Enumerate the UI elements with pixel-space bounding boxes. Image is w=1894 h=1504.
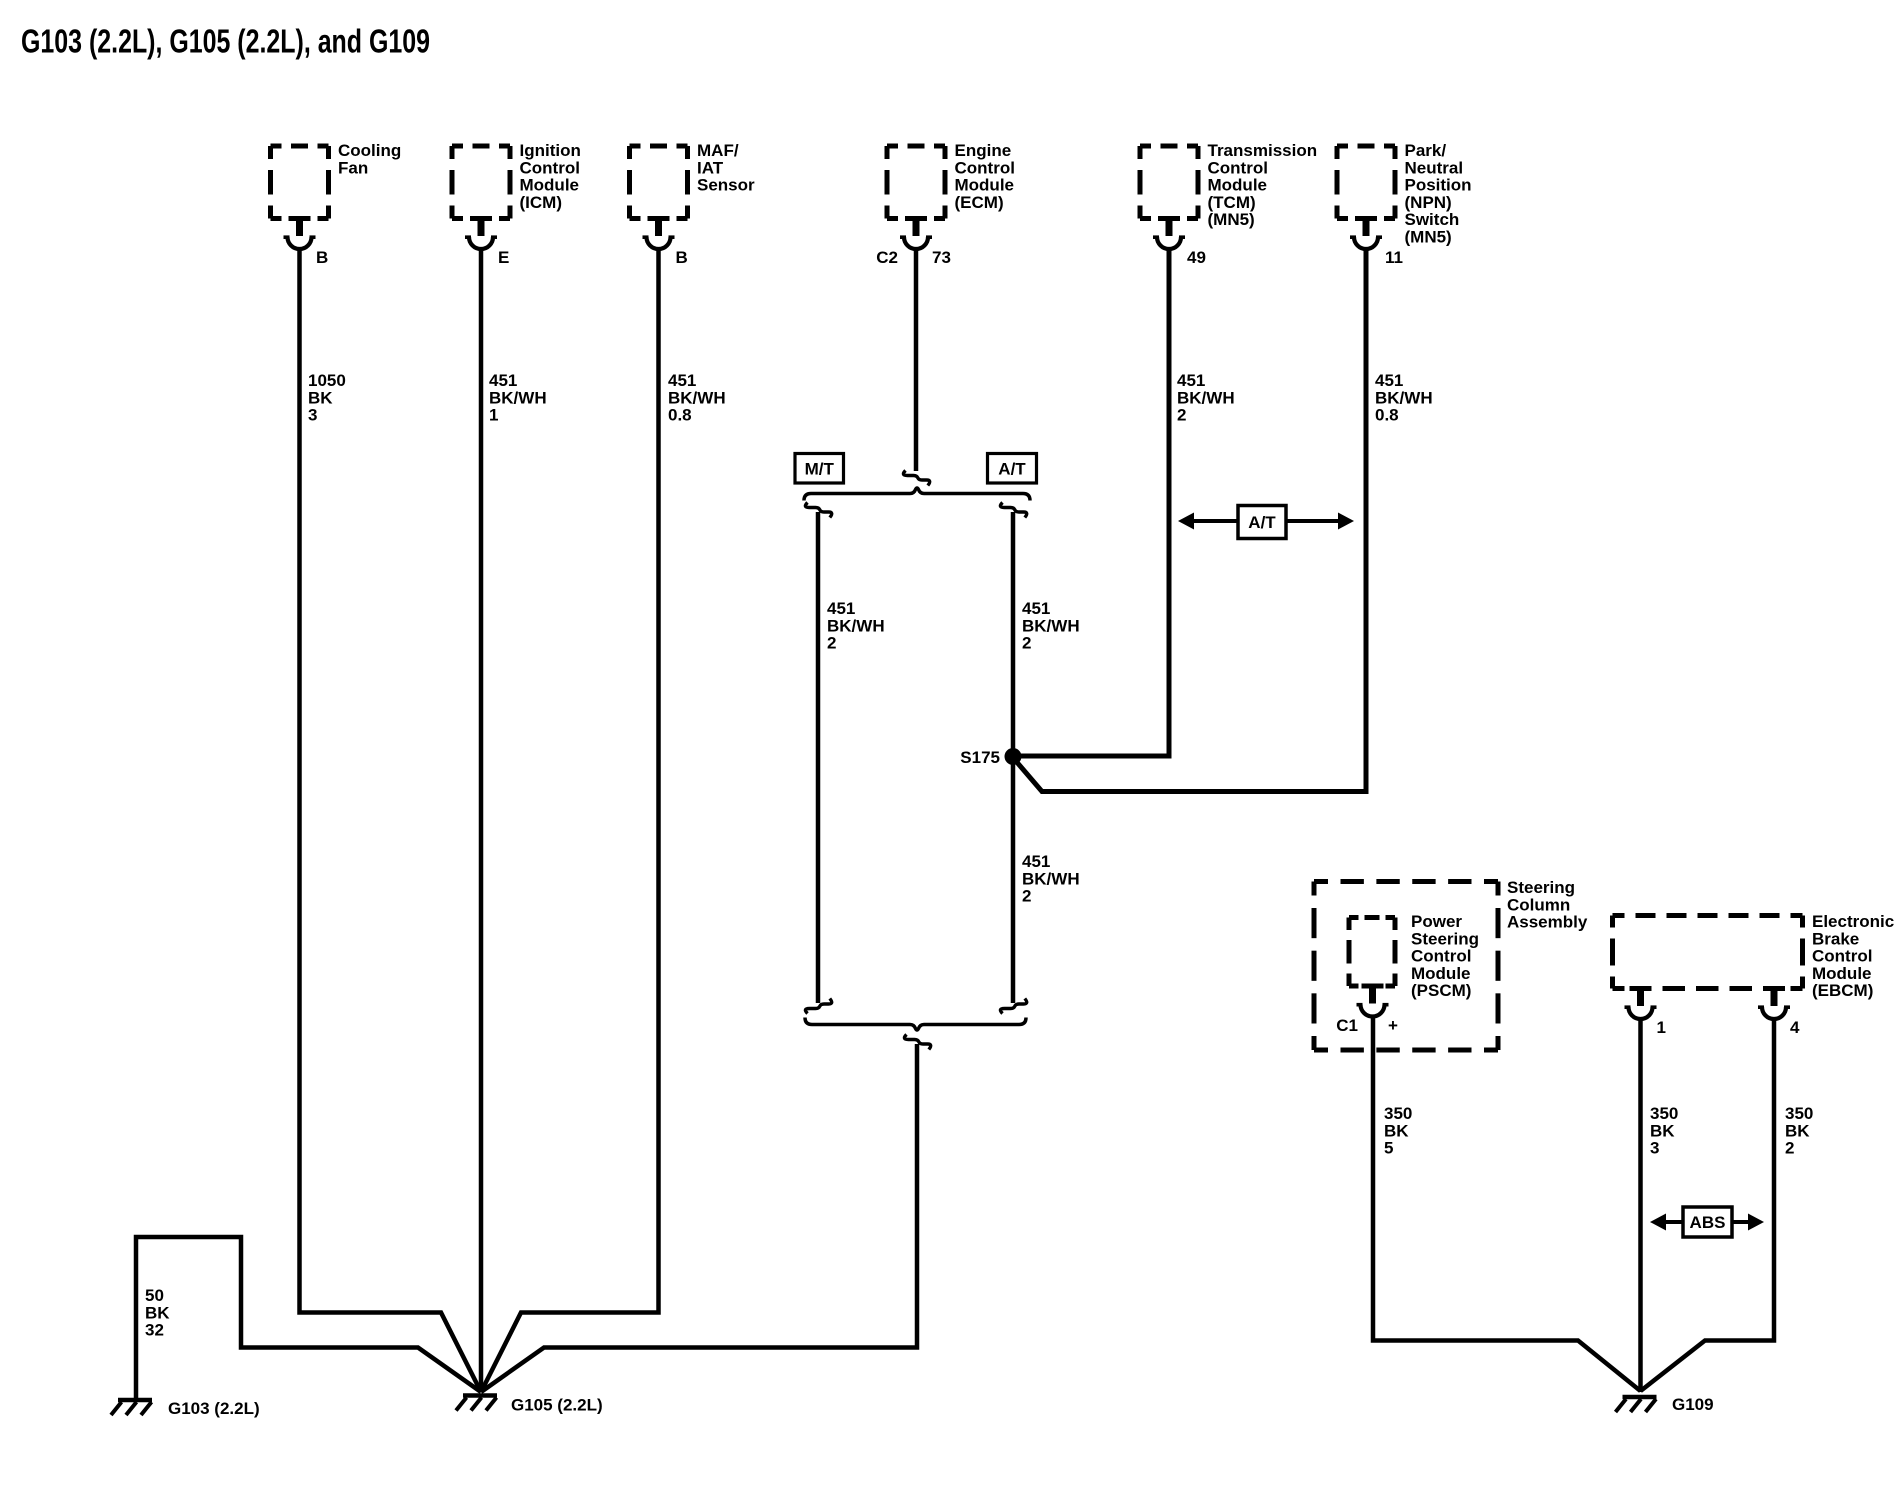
A/T arrow box <box>1238 506 1286 539</box>
merge hook (below brace) <box>904 1035 930 1050</box>
svg-text:0.8: 0.8 <box>668 406 692 425</box>
label: Park Neutral Position Switch <box>1405 141 1472 247</box>
svg-text:1: 1 <box>1657 1018 1666 1037</box>
wire: MAF/IAT B 451 BK/WH to G105 <box>481 248 659 1393</box>
label PSCM <box>1411 912 1479 1000</box>
brace: merge bottom <box>805 1018 1026 1031</box>
label: MAF IAT Sensor <box>697 141 755 195</box>
svg-text:BK/WH: BK/WH <box>827 616 885 635</box>
connector at Engine Control Module ECM <box>900 219 932 249</box>
svg-text:0.8: 0.8 <box>1375 406 1399 425</box>
svg-text:G103 (2.2L), G105 (2.2L), and: G103 (2.2L), G105 (2.2L), and G109 <box>21 23 430 60</box>
svg-text:BK/WH: BK/WH <box>1022 616 1080 635</box>
svg-text:BK/WH: BK/WH <box>1177 388 1235 407</box>
svg-text:Switch: Switch <box>1405 210 1460 229</box>
svg-text:Control: Control <box>1411 947 1471 966</box>
svg-text:Ignition: Ignition <box>520 141 581 160</box>
component box: Cooling Fan <box>271 146 329 219</box>
option box M/T <box>795 454 844 484</box>
wire: NPN 11 451 BK/WH to S175 <box>1015 248 1366 792</box>
svg-text:BK/WH: BK/WH <box>1022 869 1080 888</box>
connector C1 at PSCM <box>1357 987 1389 1017</box>
svg-text:50: 50 <box>145 1286 164 1305</box>
wire label 451 BK/WH 2 (M/T) <box>827 599 885 653</box>
svg-text:Sensor: Sensor <box>697 176 755 195</box>
svg-text:Control: Control <box>520 158 580 177</box>
label S175 <box>960 748 1000 767</box>
svg-text:BK: BK <box>1785 1121 1810 1140</box>
svg-text:C2: C2 <box>876 248 898 267</box>
svg-text:ABS: ABS <box>1690 1213 1726 1232</box>
svg-text:Engine: Engine <box>955 141 1012 160</box>
svg-text:451: 451 <box>489 371 517 390</box>
svg-text:350: 350 <box>1384 1104 1412 1123</box>
svg-text:(MN5): (MN5) <box>1208 210 1255 229</box>
svg-text:A/T: A/T <box>1248 513 1276 532</box>
svg-text:451: 451 <box>827 599 855 618</box>
wire: EBCM 1 350 BK 3 to G109 <box>1638 1017 1643 1392</box>
connector at Cooling Fan <box>284 219 316 249</box>
svg-text:1: 1 <box>489 406 498 425</box>
splice S175 <box>1005 748 1022 765</box>
svg-text:+: + <box>1388 1016 1398 1035</box>
svg-text:Column: Column <box>1507 895 1570 914</box>
svg-text:3: 3 <box>1650 1139 1659 1158</box>
svg-text:32: 32 <box>145 1321 164 1340</box>
svg-text:451: 451 <box>1022 852 1050 871</box>
svg-text:Transmission: Transmission <box>1208 141 1318 160</box>
wire: PSCM 350 BK 5 to G109 <box>1373 1015 1641 1392</box>
svg-text:(ECM): (ECM) <box>955 193 1004 212</box>
svg-text:(TCM): (TCM) <box>1208 193 1256 212</box>
pin C1 (PSCM) <box>1336 1016 1358 1035</box>
svg-text:(ICM): (ICM) <box>520 193 562 212</box>
connector pin4 at EBCM <box>1758 989 1790 1019</box>
brace: split top <box>804 488 1030 501</box>
svg-text:49: 49 <box>1187 248 1206 267</box>
component box: PSCM <box>1349 918 1395 987</box>
svg-text:Control: Control <box>1812 947 1872 966</box>
wire: Cooling Fan B 1050 BK to G105 <box>300 248 482 1393</box>
pin B (Cooling Fan) <box>316 248 328 267</box>
svg-text:73: 73 <box>932 248 951 267</box>
svg-text:BK/WH: BK/WH <box>489 388 547 407</box>
svg-text:451: 451 <box>1022 599 1050 618</box>
svg-text:Module: Module <box>1411 964 1471 983</box>
svg-text:Fan: Fan <box>338 158 368 177</box>
svg-text:A/T: A/T <box>998 459 1026 478</box>
pin 73 (ECM) <box>932 248 951 267</box>
svg-text:Module: Module <box>520 176 580 195</box>
wire: merged 451 to G105 <box>481 1044 917 1392</box>
component box: Transmission Control Module TCM <box>1140 146 1198 219</box>
wire label 350 BK 2 <box>1785 1104 1813 1158</box>
assembly box: Steering Column Assembly <box>1314 882 1498 1051</box>
branch hook (A/T top) <box>1000 503 1026 518</box>
svg-text:350: 350 <box>1785 1104 1813 1123</box>
svg-text:G109: G109 <box>1672 1395 1714 1414</box>
svg-text:451: 451 <box>1177 371 1205 390</box>
svg-text:IAT: IAT <box>697 158 724 177</box>
label: Ignition Control Module ICM <box>520 141 581 212</box>
wire label 451 BK/WH 2 (A/T upper) <box>1022 599 1080 653</box>
ABS arrow box <box>1683 1207 1732 1237</box>
svg-text:G105 (2.2L): G105 (2.2L) <box>511 1396 603 1415</box>
svg-text:BK/WH: BK/WH <box>668 388 726 407</box>
svg-text:Steering: Steering <box>1411 929 1479 948</box>
svg-text:2: 2 <box>1022 887 1031 906</box>
wire label 350 BK 3 <box>1650 1104 1678 1158</box>
svg-text:BK: BK <box>1384 1121 1409 1140</box>
wire label 451 BK/WH 2 (TCM) <box>1177 371 1235 425</box>
svg-text:Park/: Park/ <box>1405 141 1447 160</box>
svg-text:451: 451 <box>668 371 696 390</box>
svg-text:B: B <box>676 248 688 267</box>
pin E (ICM) <box>498 248 509 267</box>
component box: MAF IAT Sensor <box>630 146 688 219</box>
wire: M/T branch 451 BK/WH 2 <box>816 512 821 1003</box>
component box: Ignition Control Module ICM <box>452 146 510 219</box>
svg-text:4: 4 <box>1790 1018 1800 1037</box>
component box: Engine Control Module ECM <box>887 146 945 219</box>
wire: ECM C2-73 down to M/T-A/T split <box>914 248 919 472</box>
svg-text:2: 2 <box>1177 406 1186 425</box>
ground G109 <box>1616 1397 1657 1412</box>
svg-text:2: 2 <box>1022 634 1031 653</box>
svg-text:5: 5 <box>1384 1139 1393 1158</box>
svg-text:B: B <box>316 248 328 267</box>
label Steering Column Assembly <box>1507 878 1588 932</box>
svg-text:Control: Control <box>955 158 1015 177</box>
ABS applicability arrow <box>1650 1214 1764 1231</box>
svg-text:M/T: M/T <box>805 459 835 478</box>
svg-text:Steering: Steering <box>1507 878 1575 897</box>
ground G105 <box>456 1396 497 1411</box>
wire: TCM 49 451 BK/WH to S175 <box>1013 248 1169 757</box>
svg-text:BK: BK <box>1650 1121 1675 1140</box>
svg-text:BK/WH: BK/WH <box>1375 388 1433 407</box>
svg-text:2: 2 <box>1785 1139 1794 1158</box>
branch hook (A/T bottom) <box>1000 999 1026 1014</box>
label EBCM <box>1812 912 1894 1000</box>
wire label 350 BK 5 <box>1384 1104 1412 1158</box>
connector at Ignition Control Module ICM <box>465 219 497 249</box>
label: Cooling Fan <box>338 141 401 177</box>
branch hook (M/T bottom) <box>805 999 831 1014</box>
pin 4 (EBCM) <box>1790 1018 1800 1037</box>
branch hook (M/T top) <box>805 503 831 518</box>
svg-text:Module: Module <box>955 176 1015 195</box>
wire label 451 BK/WH 0.8 (MAF) <box>668 371 726 425</box>
wire: A/T branch 451 BK/WH 2 upper <box>1011 512 1016 756</box>
wire: ICM E 451 BK/WH to G105 <box>479 248 484 1393</box>
wire label 451 BK/WH 0.8 (NPN) <box>1375 371 1433 425</box>
svg-text:Module: Module <box>1208 176 1268 195</box>
svg-text:BK: BK <box>308 388 333 407</box>
option box A/T (split) <box>988 454 1037 484</box>
svg-text:350: 350 <box>1650 1104 1678 1123</box>
connector at MAF IAT Sensor <box>643 219 675 249</box>
svg-text:Module: Module <box>1812 964 1872 983</box>
svg-text:MAF/: MAF/ <box>697 141 739 160</box>
component box: Park Neutral Position Switch <box>1337 146 1395 219</box>
connector at Park Neutral Position Switch <box>1350 219 1382 249</box>
svg-text:Neutral: Neutral <box>1405 158 1464 177</box>
wire label 451 BK/WH 1 <box>489 371 547 425</box>
svg-text:11: 11 <box>1385 248 1403 267</box>
svg-text:(MN5): (MN5) <box>1405 228 1452 247</box>
label: Engine Control Module ECM <box>955 141 1015 212</box>
wire-end squiggle (ECM) <box>903 471 929 486</box>
svg-text:BK: BK <box>145 1303 170 1322</box>
wire label 1050 BK 3 <box>308 371 346 425</box>
wire: A/T branch 451 BK/WH 2 lower <box>1011 756 1016 1003</box>
svg-text:3: 3 <box>308 406 317 425</box>
label G105 (2.2L) <box>511 1396 603 1415</box>
svg-text:2: 2 <box>827 634 836 653</box>
connector at Transmission Control Module TCM <box>1153 219 1185 249</box>
pin 11 (NPN) <box>1385 248 1403 267</box>
component box: EBCM <box>1613 916 1803 989</box>
pin B (MAF/IAT) <box>676 248 688 267</box>
A/T applicability arrow <box>1178 513 1354 530</box>
label: Transmission Control Module TCM <box>1208 141 1318 229</box>
svg-text:Position: Position <box>1405 176 1472 195</box>
wire label 451 BK/WH 2 (below S175) <box>1022 852 1080 906</box>
svg-text:Electronic: Electronic <box>1812 912 1894 931</box>
svg-text:Control: Control <box>1208 158 1268 177</box>
ground G103 <box>111 1400 152 1415</box>
svg-text:Power: Power <box>1411 912 1462 931</box>
svg-text:G103 (2.2L): G103 (2.2L) <box>168 1399 260 1418</box>
wire label 50 BK 32 <box>145 1286 170 1340</box>
label G109 <box>1672 1395 1714 1414</box>
pin C2 (ECM) <box>876 248 898 267</box>
svg-text:1050: 1050 <box>308 371 346 390</box>
svg-text:C1: C1 <box>1336 1016 1358 1035</box>
label G103 (2.2L) <box>168 1399 260 1418</box>
svg-text:Assembly: Assembly <box>1507 913 1588 932</box>
svg-text:451: 451 <box>1375 371 1403 390</box>
wire: 50 BK 32 from G103 to G105 bus <box>136 1237 481 1398</box>
connector pin1 at EBCM <box>1625 989 1657 1019</box>
svg-text:E: E <box>498 248 509 267</box>
svg-text:Cooling: Cooling <box>338 141 401 160</box>
svg-text:(EBCM): (EBCM) <box>1812 981 1873 1000</box>
pin + (PSCM) <box>1388 1016 1398 1035</box>
svg-text:Brake: Brake <box>1812 929 1859 948</box>
pin 1 (EBCM) <box>1657 1018 1666 1037</box>
svg-text:(NPN): (NPN) <box>1405 193 1452 212</box>
svg-text:S175: S175 <box>960 748 1000 767</box>
wire: EBCM 4 350 BK 2 to G109 <box>1641 1017 1775 1391</box>
svg-text:(PSCM): (PSCM) <box>1411 981 1471 1000</box>
diagram title <box>21 23 430 60</box>
pin 49 (TCM) <box>1187 248 1206 267</box>
